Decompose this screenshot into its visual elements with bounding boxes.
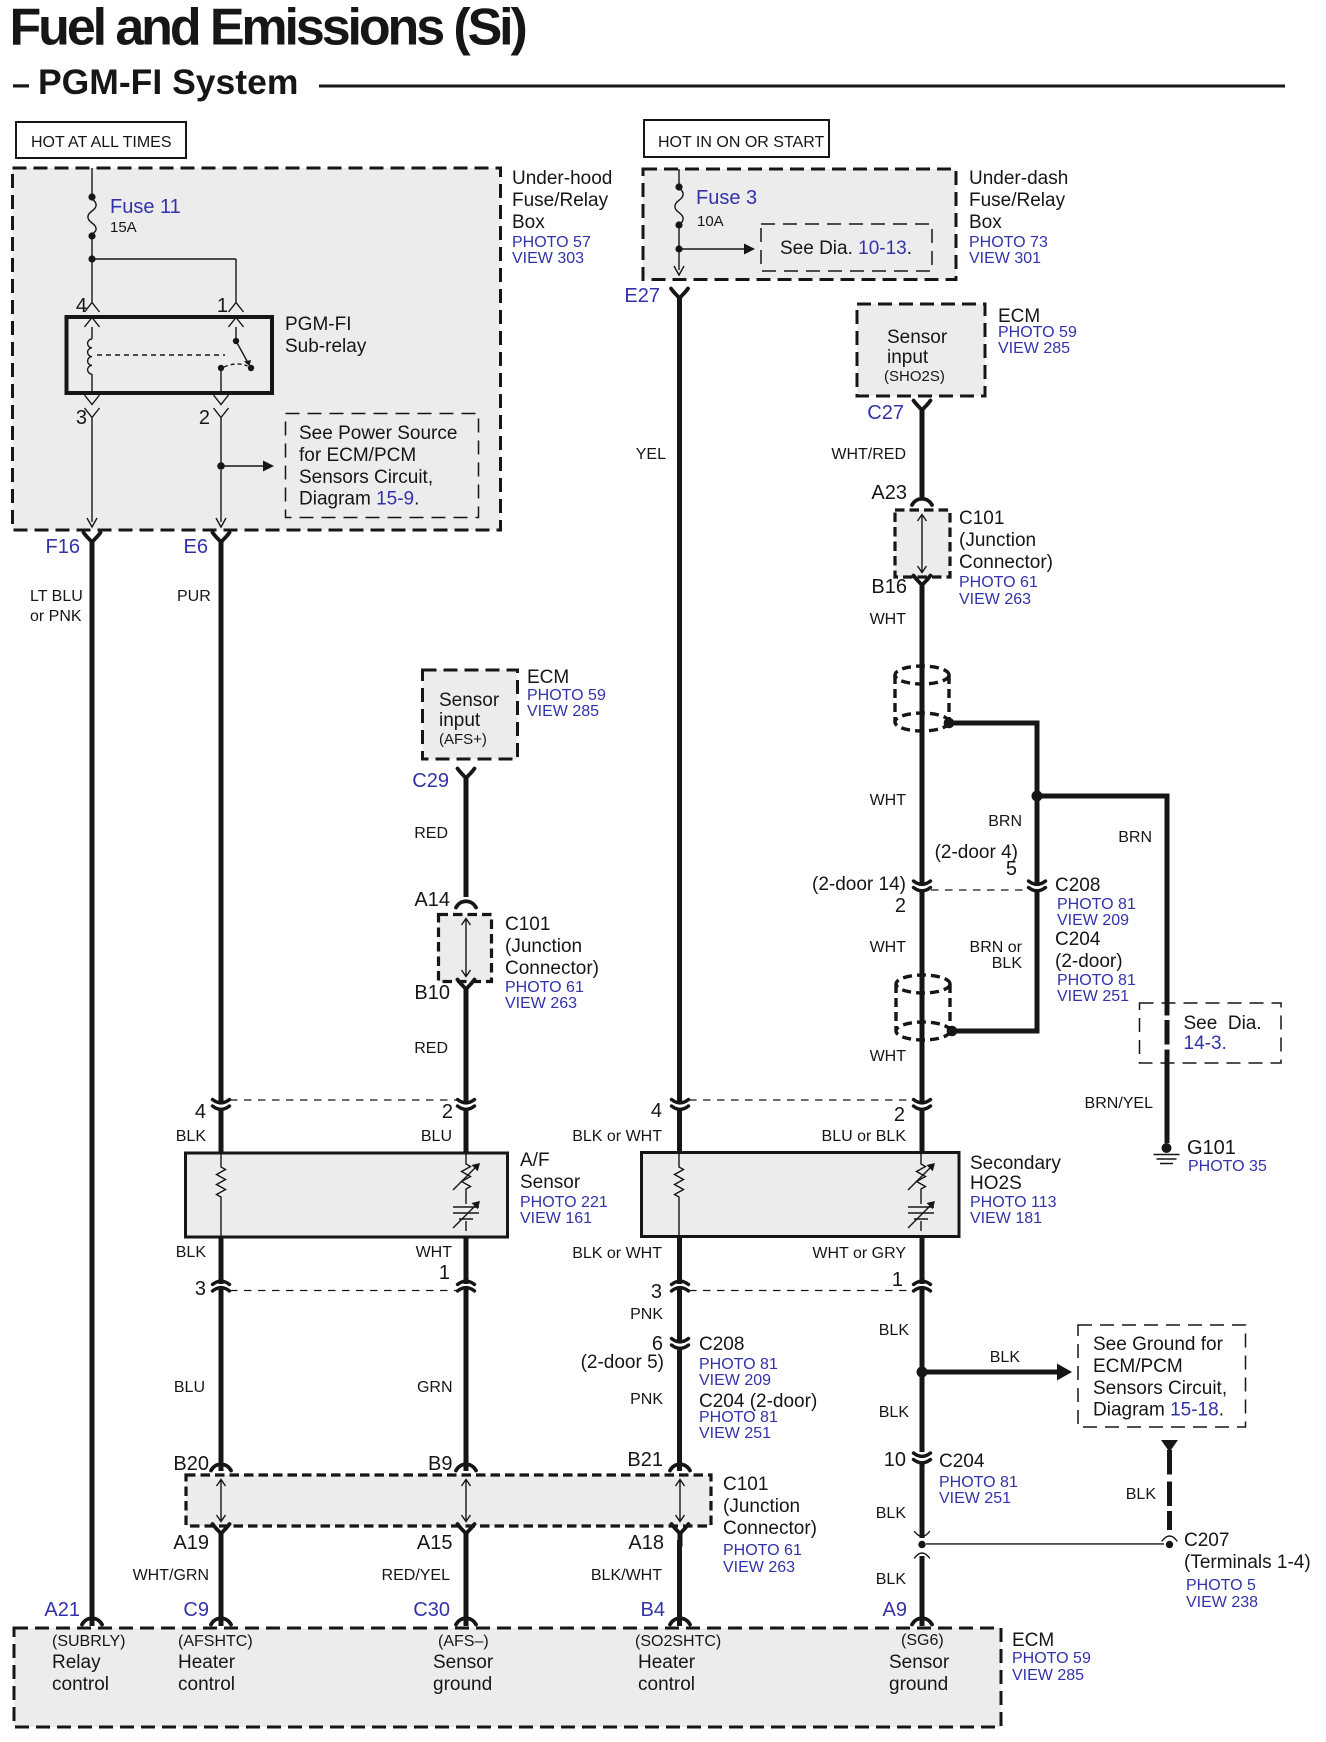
svg-text:(SUBRLY): (SUBRLY) xyxy=(52,1633,126,1650)
svg-text:PHOTO 61: PHOTO 61 xyxy=(723,1542,802,1559)
svg-text:VIEW 238: VIEW 238 xyxy=(1186,1594,1258,1611)
svg-text:Box: Box xyxy=(969,212,1002,233)
svg-text:E6: E6 xyxy=(184,536,208,558)
svg-text:C101: C101 xyxy=(723,1474,768,1495)
svg-text:WHT: WHT xyxy=(870,611,907,628)
svg-text:BLK: BLK xyxy=(992,955,1023,972)
svg-text:2: 2 xyxy=(199,407,210,429)
svg-text:B9: B9 xyxy=(428,1453,452,1475)
svg-text:Fuse 11: Fuse 11 xyxy=(110,196,181,218)
svg-text:HOT AT ALL TIMES: HOT AT ALL TIMES xyxy=(31,134,172,151)
svg-text:G101: G101 xyxy=(1187,1137,1236,1159)
svg-text:for ECM/PCM: for ECM/PCM xyxy=(299,445,416,466)
svg-text:Heater: Heater xyxy=(178,1652,236,1673)
svg-text:Diagram 15-9.: Diagram 15-9. xyxy=(299,489,419,510)
svg-text:WHT/GRN: WHT/GRN xyxy=(133,1567,209,1584)
svg-text:Box: Box xyxy=(512,212,545,233)
svg-text:B20: B20 xyxy=(173,1453,209,1475)
svg-text:PHOTO 59: PHOTO 59 xyxy=(1012,1650,1091,1667)
svg-text:ECM: ECM xyxy=(1012,1630,1054,1651)
svg-text:PHOTO 61: PHOTO 61 xyxy=(959,574,1038,591)
svg-text:Connector): Connector) xyxy=(505,958,599,979)
svg-text:WHT: WHT xyxy=(870,792,907,809)
svg-text:1: 1 xyxy=(892,1269,903,1291)
svg-text:BLK: BLK xyxy=(176,1128,207,1145)
svg-text:PHOTO 81: PHOTO 81 xyxy=(699,1409,778,1426)
svg-text:BLK: BLK xyxy=(990,1349,1021,1366)
svg-text:B4: B4 xyxy=(641,1599,665,1621)
svg-text:VIEW 251: VIEW 251 xyxy=(939,1490,1011,1507)
svg-text:WHT or GRY: WHT or GRY xyxy=(812,1245,906,1262)
svg-text:control: control xyxy=(52,1674,109,1695)
svg-text:input: input xyxy=(439,710,481,731)
svg-text:Under-dash: Under-dash xyxy=(969,168,1068,189)
svg-text:VIEW 303: VIEW 303 xyxy=(512,250,584,267)
svg-text:VIEW 263: VIEW 263 xyxy=(723,1559,795,1576)
svg-text:PHOTO 81: PHOTO 81 xyxy=(1057,972,1136,989)
svg-text:VIEW 263: VIEW 263 xyxy=(505,995,577,1012)
svg-text:PNK: PNK xyxy=(630,1306,663,1323)
svg-text:See Power Source: See Power Source xyxy=(299,423,457,444)
svg-text:WHT: WHT xyxy=(870,1048,907,1065)
svg-text:HO2S: HO2S xyxy=(970,1173,1022,1194)
svg-text:10: 10 xyxy=(884,1449,906,1471)
svg-text:Fuse 3: Fuse 3 xyxy=(696,187,757,209)
svg-text:(AFS–): (AFS–) xyxy=(438,1633,489,1650)
svg-text:C208: C208 xyxy=(699,1334,744,1355)
svg-text:C101: C101 xyxy=(959,508,1004,529)
svg-text:(SO2SHTC): (SO2SHTC) xyxy=(635,1633,721,1650)
svg-text:PGM-FI: PGM-FI xyxy=(285,314,352,335)
svg-text:C204: C204 xyxy=(1055,929,1101,950)
svg-text:Secondary: Secondary xyxy=(970,1153,1061,1174)
svg-text:BRN: BRN xyxy=(988,813,1022,830)
svg-text:A15: A15 xyxy=(417,1532,453,1554)
svg-text:HOT IN ON OR START: HOT IN ON OR START xyxy=(658,134,824,151)
svg-text:PHOTO 5: PHOTO 5 xyxy=(1186,1577,1256,1594)
svg-text:(Junction: (Junction xyxy=(723,1496,800,1517)
svg-text:A/F: A/F xyxy=(520,1150,550,1171)
svg-text:(2-door 5): (2-door 5) xyxy=(581,1352,664,1373)
svg-text:YEL: YEL xyxy=(636,446,666,463)
svg-text:C29: C29 xyxy=(412,770,449,792)
svg-text:(2-door 14): (2-door 14) xyxy=(812,874,906,895)
svg-text:VIEW 263: VIEW 263 xyxy=(959,591,1031,608)
svg-text:4: 4 xyxy=(76,295,87,317)
svg-text:Connector): Connector) xyxy=(959,552,1053,573)
svg-text:PHOTO 81: PHOTO 81 xyxy=(699,1356,778,1373)
svg-text:Sensor: Sensor xyxy=(433,1652,494,1673)
svg-text:input: input xyxy=(887,347,929,368)
svg-text:BRN: BRN xyxy=(1118,829,1152,846)
svg-text:2: 2 xyxy=(442,1101,453,1123)
svg-text:PHOTO 221: PHOTO 221 xyxy=(520,1194,608,1211)
svg-text:PHOTO 73: PHOTO 73 xyxy=(969,234,1048,251)
svg-text:15A: 15A xyxy=(110,219,137,236)
svg-text:ECM/PCM: ECM/PCM xyxy=(1093,1356,1183,1377)
svg-text:VIEW 251: VIEW 251 xyxy=(1057,988,1129,1005)
svg-text:PHOTO 59: PHOTO 59 xyxy=(527,687,606,704)
svg-text:VIEW 285: VIEW 285 xyxy=(527,703,599,720)
svg-text:WHT/RED: WHT/RED xyxy=(831,446,906,463)
svg-text:Sensor: Sensor xyxy=(439,690,500,711)
svg-text:1: 1 xyxy=(217,295,228,317)
svg-text:See Dia. 10-13.: See Dia. 10-13. xyxy=(780,238,912,259)
svg-text:PHOTO 61: PHOTO 61 xyxy=(505,979,584,996)
svg-text:BLK: BLK xyxy=(879,1322,910,1339)
svg-text:A23: A23 xyxy=(871,482,907,504)
svg-text:(AFSHTC): (AFSHTC) xyxy=(178,1633,253,1650)
svg-text:VIEW 209: VIEW 209 xyxy=(699,1372,771,1389)
svg-text:Sensors Circuit,: Sensors Circuit, xyxy=(299,467,433,488)
svg-text:C101: C101 xyxy=(505,914,550,935)
svg-text:Under-hood: Under-hood xyxy=(512,168,612,189)
svg-text:(Junction: (Junction xyxy=(959,530,1036,551)
svg-text:4: 4 xyxy=(195,1101,206,1123)
svg-text:(SHO2S): (SHO2S) xyxy=(884,368,945,385)
svg-text:BLK: BLK xyxy=(176,1244,207,1261)
svg-text:(Terminals 1-4): (Terminals 1-4) xyxy=(1184,1552,1311,1573)
svg-text:RED: RED xyxy=(414,1040,448,1057)
svg-text:14-3.: 14-3. xyxy=(1184,1033,1227,1054)
svg-text:Relay: Relay xyxy=(52,1652,101,1673)
svg-text:ground: ground xyxy=(889,1674,948,1695)
svg-text:VIEW 181: VIEW 181 xyxy=(970,1210,1042,1227)
svg-text:WHT: WHT xyxy=(870,939,907,956)
svg-text:ground: ground xyxy=(433,1674,492,1695)
svg-text:PHOTO 81: PHOTO 81 xyxy=(939,1474,1018,1491)
svg-text:PHOTO 59: PHOTO 59 xyxy=(998,324,1077,341)
svg-text:VIEW 301: VIEW 301 xyxy=(969,250,1041,267)
svg-text:Sensors Circuit,: Sensors Circuit, xyxy=(1093,1378,1227,1399)
svg-text:LT BLU: LT BLU xyxy=(30,588,83,605)
svg-text:VIEW 251: VIEW 251 xyxy=(699,1425,771,1442)
svg-text:10A: 10A xyxy=(697,213,724,230)
svg-text:VIEW 209: VIEW 209 xyxy=(1057,912,1129,929)
svg-text:BLK or WHT: BLK or WHT xyxy=(572,1128,662,1145)
svg-text:Heater: Heater xyxy=(638,1652,696,1673)
svg-text:BLU: BLU xyxy=(174,1379,205,1396)
svg-text:PUR: PUR xyxy=(177,588,211,605)
svg-text:3: 3 xyxy=(651,1281,662,1303)
svg-text:Diagram 15-18.: Diagram 15-18. xyxy=(1093,1400,1224,1421)
svg-text:control: control xyxy=(638,1674,695,1695)
svg-text:BLK: BLK xyxy=(879,1404,910,1421)
svg-text:or PNK: or PNK xyxy=(30,608,82,625)
svg-text:F16: F16 xyxy=(46,536,80,558)
svg-text:ECM: ECM xyxy=(527,667,569,688)
svg-text:Sensor: Sensor xyxy=(889,1652,950,1673)
svg-text:BLK/WHT: BLK/WHT xyxy=(591,1567,662,1584)
svg-text:BLK: BLK xyxy=(1126,1486,1157,1503)
svg-text:RED/YEL: RED/YEL xyxy=(382,1567,451,1584)
svg-text:2: 2 xyxy=(894,1104,905,1126)
svg-text:WHT: WHT xyxy=(416,1244,453,1261)
svg-text:Sensor: Sensor xyxy=(887,327,948,348)
svg-text:PHOTO 57: PHOTO 57 xyxy=(512,234,591,251)
svg-text:A18: A18 xyxy=(628,1532,664,1554)
svg-text:1: 1 xyxy=(439,1262,450,1284)
svg-text:B16: B16 xyxy=(871,576,907,598)
svg-text:Fuse/Relay: Fuse/Relay xyxy=(969,190,1066,211)
svg-text:VIEW 285: VIEW 285 xyxy=(1012,1667,1084,1684)
svg-text:A14: A14 xyxy=(414,889,450,911)
svg-text:C208: C208 xyxy=(1055,875,1100,896)
svg-text:4: 4 xyxy=(651,1100,662,1122)
svg-text:C207: C207 xyxy=(1184,1530,1229,1551)
svg-text:Sensor: Sensor xyxy=(520,1172,581,1193)
svg-text:C204: C204 xyxy=(939,1451,985,1472)
svg-text:B21: B21 xyxy=(627,1449,663,1471)
svg-text:See Dia.: See Dia. xyxy=(1184,1013,1262,1034)
svg-text:VIEW 161: VIEW 161 xyxy=(520,1210,592,1227)
svg-text:RED: RED xyxy=(414,825,448,842)
svg-text:GRN: GRN xyxy=(417,1379,453,1396)
svg-text:A19: A19 xyxy=(173,1532,209,1554)
svg-text:C27: C27 xyxy=(867,402,904,424)
svg-text:C9: C9 xyxy=(183,1599,209,1621)
svg-text:See Ground for: See Ground for xyxy=(1093,1334,1224,1355)
svg-text:(Junction: (Junction xyxy=(505,936,582,957)
svg-text:Fuel and Emissions (Si): Fuel and Emissions (Si) xyxy=(10,0,526,56)
svg-text:BLK: BLK xyxy=(876,1571,907,1588)
svg-text:C30: C30 xyxy=(413,1599,450,1621)
svg-text:Fuse/Relay: Fuse/Relay xyxy=(512,190,609,211)
svg-text:Sub-relay: Sub-relay xyxy=(285,336,367,357)
svg-text:(AFS+): (AFS+) xyxy=(439,731,487,748)
svg-text:BRN or: BRN or xyxy=(970,939,1023,956)
svg-text:3: 3 xyxy=(76,407,87,429)
svg-text:BLU: BLU xyxy=(421,1128,452,1145)
svg-text:PNK: PNK xyxy=(630,1391,663,1408)
svg-text:A9: A9 xyxy=(883,1599,907,1621)
svg-text:E27: E27 xyxy=(624,285,660,307)
svg-text:2: 2 xyxy=(895,895,906,917)
svg-text:5: 5 xyxy=(1006,858,1017,880)
svg-text:A21: A21 xyxy=(44,1599,80,1621)
svg-text:PGM-FI System: PGM-FI System xyxy=(38,62,298,102)
svg-text:(2-door): (2-door) xyxy=(1055,951,1123,972)
svg-text:Connector): Connector) xyxy=(723,1518,817,1539)
svg-text:3: 3 xyxy=(195,1278,206,1300)
svg-text:BLK or WHT: BLK or WHT xyxy=(572,1245,662,1262)
svg-text:BRN/YEL: BRN/YEL xyxy=(1085,1095,1154,1112)
svg-text:BLU or BLK: BLU or BLK xyxy=(822,1128,907,1145)
svg-text:PHOTO 81: PHOTO 81 xyxy=(1057,896,1136,913)
svg-text:(SG6): (SG6) xyxy=(901,1632,944,1649)
svg-text:BLK: BLK xyxy=(876,1505,907,1522)
svg-text:PHOTO 35: PHOTO 35 xyxy=(1188,1158,1267,1175)
svg-text:control: control xyxy=(178,1674,235,1695)
svg-text:B10: B10 xyxy=(414,982,450,1004)
svg-text:PHOTO 113: PHOTO 113 xyxy=(970,1194,1057,1211)
svg-text:VIEW 285: VIEW 285 xyxy=(998,340,1070,357)
